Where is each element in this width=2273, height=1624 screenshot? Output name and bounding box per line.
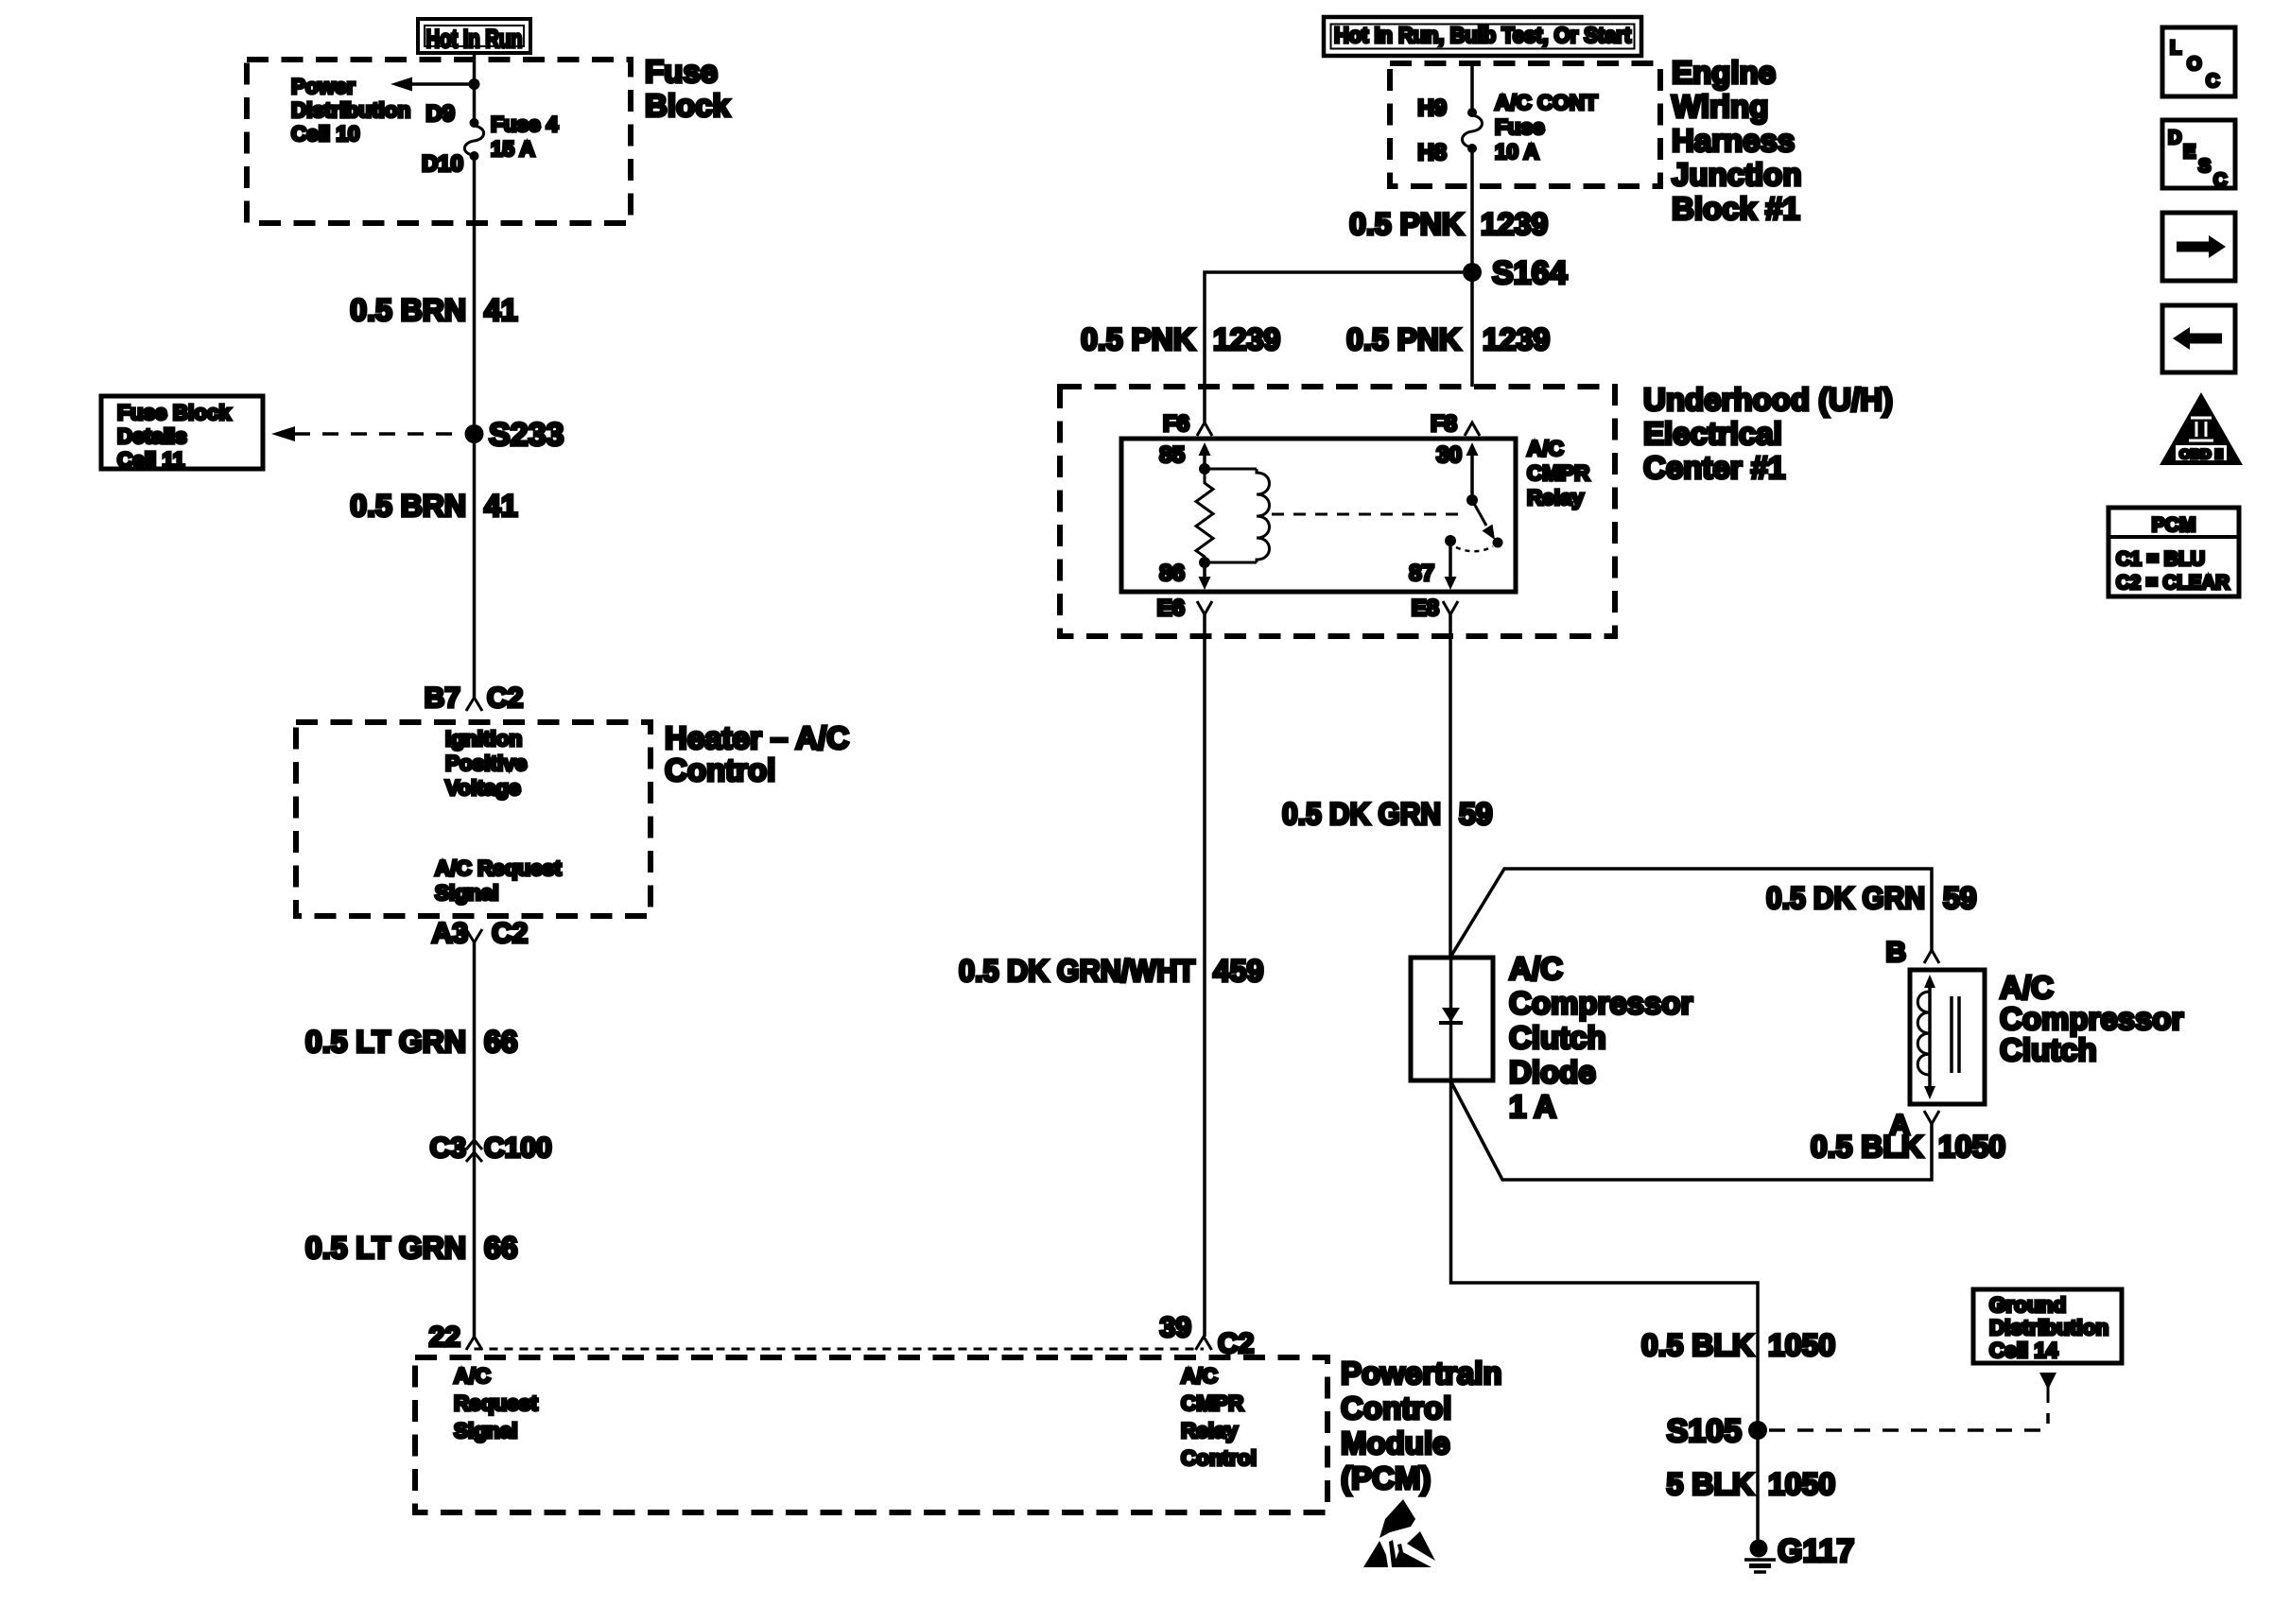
- relay resistor: [1196, 469, 1213, 562]
- svg-text:C2: C2: [487, 682, 523, 714]
- PCM connector legend box: [2108, 508, 2239, 596]
- diode box: [1411, 958, 1493, 1080]
- arrow to Power Distribution: [411, 82, 473, 86]
- terminal A: [1924, 1111, 1939, 1124]
- wire clutch A to diode bottom, 0.5 BLK 1050: [1451, 1082, 1932, 1180]
- svg-text:B: B: [1885, 937, 1906, 968]
- A/C compressor clutch box: [1910, 970, 1985, 1104]
- svg-text:CMPR: CMPR: [1527, 461, 1589, 485]
- dashed arrow to Fuse Block Details: [294, 432, 463, 436]
- svg-text:OBD II: OBD II: [2179, 446, 2223, 461]
- wire branch from S164 to F6: [1205, 272, 1463, 423]
- linkage dashed line coil to switch: [1272, 513, 1465, 516]
- svg-text:E: E: [2183, 142, 2195, 163]
- relay switch blade: [1472, 500, 1486, 526]
- svg-text:0.5 BLK: 0.5 BLK: [1641, 1328, 1754, 1362]
- svg-text:Cell 11: Cell 11: [117, 448, 184, 472]
- svg-text:Engine: Engine: [1672, 55, 1776, 90]
- svg-text:30: 30: [1436, 442, 1462, 468]
- svg-text:C100: C100: [484, 1132, 552, 1164]
- svg-text:459: 459: [1213, 954, 1263, 988]
- svg-text:59: 59: [1459, 797, 1493, 831]
- icon box arrow left: [2162, 305, 2235, 372]
- svg-text:A/C: A/C: [1527, 437, 1564, 460]
- terminal 22: [466, 1337, 482, 1350]
- svg-text:Module: Module: [1341, 1425, 1449, 1460]
- splice S164: [1463, 263, 1482, 282]
- power label box: Hot In Run: [418, 19, 530, 53]
- terminal F6: [1197, 423, 1212, 436]
- relay coil junction dots: [1199, 463, 1210, 475]
- connector B7 C2: [466, 698, 482, 711]
- svg-text:D: D: [2168, 128, 2181, 148]
- svg-text:Signal: Signal: [435, 881, 499, 905]
- power label box: Hot In Run, Bulb Test, Or Start: [1324, 17, 1641, 56]
- relay pin 86: [1203, 562, 1206, 580]
- svg-text:Electrical: Electrical: [1643, 416, 1782, 451]
- svg-text:A/C CONT: A/C CONT: [1495, 91, 1598, 114]
- svg-text:Fuse: Fuse: [645, 54, 718, 89]
- fuse F4 terminals D9/D10: [470, 118, 479, 128]
- svg-text:Relay: Relay: [1527, 486, 1585, 510]
- terminal B: [1924, 950, 1939, 963]
- clutch coil line with arrows: [1928, 983, 1932, 1091]
- wire 0.5 BRN 41 (upper): [473, 159, 477, 698]
- svg-text:Center #1: Center #1: [1643, 450, 1785, 485]
- svg-text:Fuse 4: Fuse 4: [491, 112, 559, 136]
- svg-text:H9: H9: [1417, 95, 1447, 121]
- wire 0.5 PNK 1239 to S164: [1470, 151, 1474, 387]
- svg-text:Cell 14: Cell 14: [1989, 1339, 2058, 1362]
- svg-text:Wiring: Wiring: [1672, 89, 1768, 124]
- svg-text:Heater – A/C: Heater – A/C: [665, 720, 849, 755]
- svg-text:D10: D10: [422, 151, 463, 177]
- svg-text:Voltage: Voltage: [445, 776, 521, 800]
- svg-text:Request: Request: [454, 1391, 538, 1415]
- svg-text:A/C: A/C: [1509, 951, 1563, 986]
- svg-text:0.5 LT GRN: 0.5 LT GRN: [305, 1025, 466, 1059]
- svg-text:Distribution: Distribution: [1989, 1316, 2108, 1339]
- svg-text:Cell 10: Cell 10: [291, 122, 360, 146]
- terminal E6: [1197, 601, 1212, 614]
- svg-text:F6: F6: [1163, 411, 1189, 437]
- svg-text:A3: A3: [432, 918, 468, 949]
- svg-text:39: 39: [1160, 1312, 1191, 1343]
- wire through diode box: [1449, 958, 1453, 1080]
- svg-text:Relay: Relay: [1181, 1419, 1239, 1443]
- svg-text:Power: Power: [291, 75, 356, 98]
- svg-text:1 A: 1 A: [1509, 1089, 1556, 1124]
- terminal F8: [1465, 423, 1480, 436]
- terminal 39 C2: [1196, 1337, 1212, 1350]
- svg-text:S105: S105: [1667, 1413, 1742, 1449]
- junction dot on wire at arrow: [469, 78, 480, 90]
- OBD II symbol: [2160, 392, 2243, 465]
- relay pin 87 contact: [1445, 535, 1456, 546]
- svg-text:Clutch: Clutch: [2000, 1032, 2097, 1067]
- svg-text:87: 87: [1409, 561, 1434, 586]
- svg-text:86: 86: [1159, 561, 1185, 586]
- switch throw dashed arc: [1456, 546, 1493, 551]
- svg-text:1239: 1239: [1481, 207, 1548, 241]
- dashed reference to Ground Distribution: [1769, 1428, 2048, 1432]
- svg-text:Fuse: Fuse: [1495, 115, 1545, 139]
- svg-text:22: 22: [429, 1322, 460, 1353]
- svg-text:(PCM): (PCM): [1341, 1460, 1431, 1495]
- svg-text:D9: D9: [425, 101, 455, 127]
- wire 0.5 DK GRN/WHT 459 (E6 to PCM 39): [1203, 614, 1206, 1337]
- svg-text:Distribution: Distribution: [291, 98, 410, 122]
- svg-text:Ignition: Ignition: [445, 727, 522, 751]
- svg-text:C3: C3: [430, 1132, 466, 1164]
- svg-text:66: 66: [484, 1231, 518, 1265]
- relay switch pivot: [1466, 494, 1478, 506]
- dotted wire inside PCM between 22 and 39: [475, 1348, 1205, 1351]
- svg-text:Block #1: Block #1: [1672, 191, 1800, 226]
- svg-text:1050: 1050: [1938, 1130, 2005, 1164]
- svg-text:C2 = CLEAR: C2 = CLEAR: [2116, 572, 2230, 594]
- svg-text:Block: Block: [645, 88, 731, 123]
- terminal E8: [1443, 601, 1458, 614]
- svg-text:C1 = BLU: C1 = BLU: [2116, 548, 2205, 570]
- svg-text:1050: 1050: [1768, 1328, 1835, 1362]
- svg-text:A/C: A/C: [1181, 1364, 1218, 1388]
- svg-text:Harness: Harness: [1672, 123, 1795, 158]
- heater A/C control dashed box: [296, 722, 651, 916]
- reference box: Fuse Block Details Cell 11: [101, 396, 263, 469]
- splice S233: [465, 424, 484, 443]
- diode symbol: [1442, 1008, 1460, 1022]
- svg-text:CMPR: CMPR: [1181, 1391, 1243, 1415]
- wire 0.5 DK GRN 59 (E8 down): [1449, 614, 1452, 958]
- svg-text:B7: B7: [425, 682, 460, 714]
- svg-text:0.5 PNK: 0.5 PNK: [1349, 207, 1464, 241]
- svg-text:PCM: PCM: [2152, 514, 2196, 536]
- splice S105: [1748, 1421, 1767, 1440]
- fuse block dashed box: [247, 60, 631, 223]
- svg-text:Underhood (U/H): Underhood (U/H): [1643, 382, 1893, 417]
- svg-text:1239: 1239: [1213, 322, 1280, 356]
- reference box: Ground Distribution Cell 14: [1973, 1289, 2122, 1363]
- svg-text:85: 85: [1159, 442, 1185, 468]
- svg-text:L: L: [2170, 38, 2181, 59]
- svg-text:S: S: [2198, 156, 2211, 177]
- ground G117: [1750, 1540, 1768, 1558]
- svg-text:A/C: A/C: [2000, 970, 2054, 1005]
- svg-text:59: 59: [1943, 881, 1977, 915]
- svg-text:C2: C2: [1218, 1328, 1254, 1359]
- svg-text:Fuse Block: Fuse Block: [117, 401, 232, 424]
- icon box DESC: [2162, 120, 2235, 188]
- svg-text:A/C: A/C: [454, 1364, 491, 1388]
- svg-text:Hot In Run, Bulb Test, Or Star: Hot In Run, Bulb Test, Or Start: [1334, 23, 1631, 47]
- icon box arrow right: [2162, 213, 2235, 281]
- engine wiring harness junction block dashed box: [1390, 63, 1660, 186]
- svg-text:0.5 PNK: 0.5 PNK: [1346, 322, 1461, 356]
- wire into junction block: [1470, 63, 1474, 110]
- relay pin 85: [1203, 452, 1206, 469]
- svg-text:0.5 PNK: 0.5 PNK: [1081, 322, 1195, 356]
- svg-text:Signal: Signal: [454, 1419, 518, 1443]
- svg-text:E8: E8: [1412, 596, 1439, 621]
- svg-text:0.5 DK GRN: 0.5 DK GRN: [1282, 797, 1441, 831]
- wire 0.5 LT GRN 66: [473, 942, 477, 1337]
- svg-text:0.5 LT GRN: 0.5 LT GRN: [305, 1231, 466, 1265]
- ESD sensitivity symbol: [1363, 1499, 1435, 1567]
- svg-text:Diode: Diode: [1509, 1055, 1596, 1090]
- svg-text:1050: 1050: [1768, 1467, 1835, 1501]
- svg-text:Control: Control: [1181, 1446, 1257, 1470]
- svg-text:Details: Details: [117, 424, 187, 448]
- wire: Hot In Run into fuse block: [473, 53, 477, 120]
- svg-text:Compressor: Compressor: [1509, 986, 1693, 1021]
- svg-text:H8: H8: [1417, 140, 1447, 165]
- branch to clutch B: [1451, 869, 1932, 956]
- svg-text:Compressor: Compressor: [2000, 1001, 2184, 1036]
- svg-text:Control: Control: [1341, 1391, 1451, 1425]
- svg-text:Clutch: Clutch: [1509, 1020, 1606, 1055]
- svg-text:A/C Request: A/C Request: [435, 856, 562, 880]
- connector A3 C2: [466, 929, 482, 942]
- PCM dashed box: [415, 1357, 1327, 1512]
- svg-text:Positive: Positive: [445, 752, 527, 775]
- relay coil: [1205, 468, 1257, 471]
- svg-text:5 BLK: 5 BLK: [1667, 1467, 1754, 1501]
- svg-text:0.5 DK GRN/WHT: 0.5 DK GRN/WHT: [959, 954, 1195, 988]
- svg-text:G117: G117: [1778, 1533, 1854, 1569]
- svg-text:C: C: [2206, 71, 2219, 92]
- svg-text:Junction: Junction: [1672, 157, 1802, 192]
- connector C3 C100 (inline, double chevron): [466, 1140, 482, 1149]
- wire to S105, 0.5 BLK 1050: [1451, 1080, 1759, 1541]
- svg-text:O: O: [2187, 54, 2202, 75]
- svg-text:C2: C2: [492, 918, 528, 949]
- svg-text:0.5 BLK: 0.5 BLK: [1811, 1130, 1923, 1164]
- svg-text:Powertrain: Powertrain: [1341, 1356, 1502, 1391]
- svg-text:0.5 BRN: 0.5 BRN: [350, 489, 466, 523]
- relay pin 30: [1470, 452, 1474, 500]
- svg-text:66: 66: [484, 1025, 518, 1059]
- svg-text:15 A: 15 A: [491, 137, 535, 161]
- svg-text:0.5 DK GRN: 0.5 DK GRN: [1766, 881, 1925, 915]
- svg-text:F8: F8: [1431, 411, 1457, 437]
- svg-text:S233: S233: [489, 417, 564, 453]
- svg-text:41: 41: [484, 489, 518, 523]
- icon box LOC: [2162, 27, 2235, 96]
- relay box: A/C CMPR Relay: [1121, 439, 1516, 592]
- underhood electrical center dashed box: [1060, 387, 1615, 636]
- fuse element S-curve: [464, 126, 483, 155]
- svg-text:10 A: 10 A: [1495, 140, 1539, 164]
- svg-text:41: 41: [484, 293, 518, 327]
- svg-text:S164: S164: [1492, 255, 1567, 291]
- svg-text:Ground: Ground: [1989, 1293, 2066, 1317]
- svg-text:C: C: [2213, 170, 2227, 191]
- svg-text:0.5 BRN: 0.5 BRN: [350, 293, 466, 327]
- clutch plates: [1950, 996, 1953, 1073]
- fuse A/C CONT terminals H9/H8: [1467, 108, 1477, 117]
- svg-text:Hot In Run: Hot In Run: [426, 25, 523, 53]
- svg-text:Control: Control: [665, 752, 775, 787]
- clutch coil bumps: [1917, 992, 1930, 1075]
- svg-text:1239: 1239: [1483, 322, 1550, 356]
- svg-text:E6: E6: [1157, 596, 1185, 621]
